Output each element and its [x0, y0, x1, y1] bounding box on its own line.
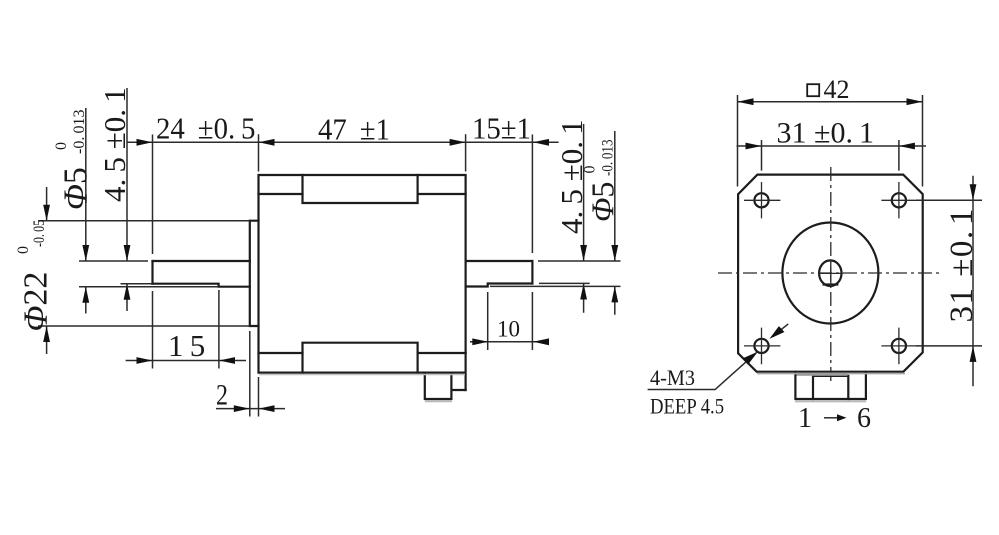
svg-text:Φ22: Φ22: [18, 272, 55, 332]
extension line boss top: [38, 220, 250, 222]
svg-text:24 ±0. 5: 24 ±0. 5: [156, 112, 255, 146]
svg-text:4. 5 ±0. 1: 4. 5 ±0. 1: [97, 87, 132, 202]
dim 2 (boss height): [216, 408, 285, 410]
svg-text:31 ±0. 1: 31 ±0. 1: [777, 117, 874, 150]
wire connector (side view): [259, 373, 466, 402]
dim Φ5 left: vertical line and arrows: [85, 108, 87, 314]
motor body outline (side view): [259, 175, 466, 390]
svg-text:31 ±0. 1: 31 ±0. 1: [944, 207, 980, 322]
svg-text:6: 6: [857, 403, 871, 434]
extension line boss bottom: [38, 325, 250, 327]
extension line shaft bottom right: [490, 285, 621, 287]
screw hole top-right: [892, 193, 906, 207]
dim Φ5 right: vertical line and arrows: [614, 131, 616, 315]
screw hole bottom-left: [754, 339, 768, 353]
extension line at front shaft tip: [152, 135, 154, 369]
svg-text:1: 1: [798, 403, 812, 434]
front shaft (left, with flat): [153, 261, 250, 287]
dim □42: [738, 101, 923, 103]
extension line at rear shaft tip: [531, 135, 533, 351]
svg-text:0: 0: [582, 166, 599, 174]
second arrow at hole: [773, 324, 789, 337]
svg-text:4-M3: 4-M3: [650, 365, 695, 390]
svg-text:-0. 05: -0. 05: [30, 220, 48, 247]
dim 15 (flat length): [126, 360, 246, 362]
pilot boss (side view): [250, 221, 259, 326]
svg-text:-0. 013: -0. 013: [599, 139, 616, 176]
flange outline with chamfered corners: [738, 175, 923, 372]
dim 10 (rear flat length): [470, 341, 547, 343]
shaft circle Φ5 with flat: [819, 260, 841, 286]
pilot circle Φ22: [782, 223, 878, 324]
arrow at motor rear face: [450, 139, 466, 146]
svg-text:Φ5: Φ5: [58, 167, 95, 210]
svg-text:-0. 013: -0. 013: [71, 109, 88, 154]
dim 4.5 left: vertical line and arrows: [126, 88, 128, 311]
connector (bottom view): [757, 372, 905, 402]
arrow 15 right (outside): [533, 139, 549, 146]
rear shaft (right, with flat): [466, 261, 533, 287]
svg-text:42: 42: [824, 75, 850, 104]
shaft centerline cross: [820, 260, 844, 285]
extension line shaft top left: [79, 260, 148, 262]
dimension line 24/47/15 (top horizontal): [127, 141, 559, 143]
centerline vertical (dash-dot): [830, 167, 832, 381]
dim Φ22: vertical line and arrows: [46, 187, 48, 354]
svg-text:Φ5: Φ5: [585, 182, 621, 222]
arrow at motor front face: [259, 139, 275, 146]
dim 31 ±0.1 (right, vertical): [972, 176, 974, 387]
svg-text:15±1: 15±1: [472, 112, 531, 146]
svg-text:2: 2: [216, 378, 228, 411]
arrow 24 left (outside): [137, 139, 153, 146]
centerline horizontal (dash-dot): [718, 272, 941, 274]
screw hole top-left: [754, 193, 768, 207]
svg-text:1 5: 1 5: [168, 328, 205, 363]
dim 31 ±0.1 (top): [737, 145, 927, 147]
label □42: [807, 84, 819, 96]
extension line flat left: [121, 283, 153, 285]
hole cross bottom-right: [881, 328, 917, 365]
extension line flat right: [539, 282, 590, 284]
svg-text:0: 0: [53, 142, 70, 150]
svg-text:10: 10: [497, 317, 520, 342]
extension line shaft top right: [538, 260, 621, 262]
extension line shaft bottom left: [79, 286, 219, 288]
extension line at motor rear face: [465, 134, 467, 171]
hole cross bottom-left: [744, 328, 780, 365]
leader 4-M3: [648, 353, 757, 390]
svg-text:47 ±1: 47 ±1: [318, 113, 390, 147]
extension line at motor front face: [258, 134, 260, 171]
hole cross top-right: [881, 182, 917, 218]
hole cross top-left: [744, 182, 780, 218]
dim 4.5 right: vertical line and arrows: [583, 124, 585, 313]
screw hole bottom-right: [892, 339, 906, 353]
svg-text:DEEP 4.5: DEEP 4.5: [650, 395, 724, 419]
